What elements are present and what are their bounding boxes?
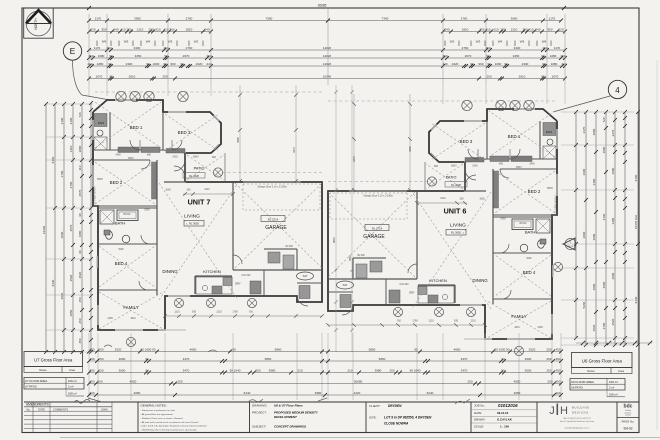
entry detail xyxy=(370,261,382,272)
svg-text:3000: 3000 xyxy=(525,357,532,361)
svg-text:2610: 2610 xyxy=(519,74,526,78)
svg-text:450: 450 xyxy=(89,379,94,383)
job column xyxy=(471,409,537,411)
svg-text:DATE:: DATE: xyxy=(474,411,482,415)
svg-text:4050: 4050 xyxy=(134,391,141,395)
svg-text:www.jhbuildingdesigns.com.au: www.jhbuildingdesigns.com.au xyxy=(565,428,589,430)
svg-text:Name: Name xyxy=(39,368,47,372)
door swing arcs xyxy=(510,149,520,159)
pen scribbles xyxy=(104,345,470,404)
svg-text:450: 450 xyxy=(78,338,82,343)
svg-text:WLT: WLT xyxy=(303,275,308,278)
svg-text:GENERAL NOTES:: GENERAL NOTES: xyxy=(141,403,167,407)
ens shower xyxy=(94,137,107,150)
WLT oval xyxy=(337,281,354,289)
svg-text:4050: 4050 xyxy=(514,391,521,395)
svg-text:3400: 3400 xyxy=(529,163,535,166)
svg-text:FAMILY: FAMILY xyxy=(511,314,526,319)
svg-text:4560: 4560 xyxy=(408,146,412,152)
svg-text:210: 210 xyxy=(87,62,92,66)
svg-text:150: 150 xyxy=(78,297,82,302)
svg-text:SH-02: SH-02 xyxy=(623,427,632,431)
svg-text:410: 410 xyxy=(120,27,125,31)
svg-text:RL 3650: RL 3650 xyxy=(451,231,462,235)
svg-text:1080: 1080 xyxy=(98,54,105,58)
robes / dark fixtures xyxy=(511,156,532,162)
svg-text:400: 400 xyxy=(89,391,94,395)
svg-text:1620: 1620 xyxy=(196,62,203,66)
svg-text:2100: 2100 xyxy=(69,117,73,124)
svg-text:90: 90 xyxy=(414,347,418,351)
svg-text:1410: 1410 xyxy=(69,145,73,152)
svg-text:1810: 1810 xyxy=(130,317,136,320)
svg-text:W3: W3 xyxy=(476,40,481,44)
svg-text:1810: 1810 xyxy=(462,27,469,31)
downpipe circles top xyxy=(524,100,534,110)
U6 area values table xyxy=(570,379,625,391)
bottom dimension row 5 xyxy=(89,394,561,396)
svg-text:W08: W08 xyxy=(527,257,533,260)
svg-text:7340: 7340 xyxy=(382,16,389,20)
svg-text:SUBJECT:: SUBJECT: xyxy=(252,425,267,429)
left dimension strip xyxy=(45,104,47,352)
svg-text:CLIENT:: CLIENT: xyxy=(369,404,381,408)
svg-text:U7 FLOOR AREA: U7 FLOOR AREA xyxy=(25,379,47,383)
svg-text:1620: 1620 xyxy=(452,62,459,66)
svg-text:GH-13: GH-13 xyxy=(567,246,574,248)
svg-text:950: 950 xyxy=(547,27,552,31)
svg-text:1170: 1170 xyxy=(95,16,102,20)
svg-text:860: 860 xyxy=(499,163,504,166)
bottom dimension row 1 xyxy=(89,351,326,353)
svg-text:4050: 4050 xyxy=(514,379,521,383)
living dim row xyxy=(183,193,233,195)
svg-text:106 m²: 106 m² xyxy=(68,379,77,383)
svg-text:108 m²: 108 m² xyxy=(68,392,77,396)
svg-text:BED 2: BED 2 xyxy=(528,189,541,194)
svg-text:1060: 1060 xyxy=(479,197,485,200)
svg-text:3080: 3080 xyxy=(592,128,596,135)
bottom extension lines xyxy=(88,333,90,400)
svg-text:LOT 9 in DP 862550, 4 DRYDEN: LOT 9 in DP 862550, 4 DRYDEN xyxy=(384,416,432,420)
svg-text:Area: Area xyxy=(618,369,624,373)
svg-text:2610: 2610 xyxy=(129,74,136,78)
svg-text:90: 90 xyxy=(542,62,546,66)
svg-text:W2: W2 xyxy=(194,40,199,44)
svg-text:U6 & U7 Floor Plans: U6 & U7 Floor Plans xyxy=(274,404,303,408)
svg-text:DRYDEN: DRYDEN xyxy=(388,404,402,408)
svg-text:250: 250 xyxy=(162,74,167,78)
svg-text:4: 4 xyxy=(615,86,620,95)
svg-text:PATIO: PATIO xyxy=(446,176,457,180)
svg-text:BATH: BATH xyxy=(525,230,535,235)
svg-text:BWH: BWH xyxy=(547,187,553,190)
downpipe circles top xyxy=(116,91,126,101)
svg-text:90 900: 90 900 xyxy=(357,254,365,257)
svg-text:2 m²: 2 m² xyxy=(68,385,73,389)
right dimension strip xyxy=(575,112,577,338)
svg-text:1210: 1210 xyxy=(137,27,144,31)
svg-text:2520: 2520 xyxy=(60,292,64,299)
svg-text:3400: 3400 xyxy=(115,154,121,157)
svg-text:4660: 4660 xyxy=(454,347,461,351)
svg-text:D E S I G N S: D E S I G N S xyxy=(572,411,588,415)
svg-text:90: 90 xyxy=(504,62,508,66)
svg-text:2420: 2420 xyxy=(144,209,150,212)
svg-text:110: 110 xyxy=(78,165,82,170)
svg-text:250: 250 xyxy=(522,27,527,31)
svg-text:5260: 5260 xyxy=(582,301,586,308)
svg-text:250: 250 xyxy=(177,379,182,383)
patio outline xyxy=(464,162,466,191)
svg-text:2700: 2700 xyxy=(60,170,64,177)
svg-text:U7 Gross Floor Area: U7 Gross Floor Area xyxy=(34,357,73,362)
svg-text:DRY: DRY xyxy=(235,282,241,286)
svg-text:DINING: DINING xyxy=(162,269,178,274)
svg-text:U6 Gross Floor Area: U6 Gross Floor Area xyxy=(582,358,623,363)
svg-text:2670: 2670 xyxy=(183,54,190,58)
garage door opening xyxy=(349,190,407,192)
svg-text:90 1640: 90 1640 xyxy=(410,368,421,372)
laundry fixtures xyxy=(250,281,261,294)
svg-text:7580: 7580 xyxy=(266,16,273,20)
svg-text:20680: 20680 xyxy=(354,379,363,383)
svg-text:BED 1: BED 1 xyxy=(508,134,521,139)
svg-text:90 1640: 90 1640 xyxy=(230,368,241,372)
svg-text:BWV: BWV xyxy=(193,156,199,159)
svg-text:2420: 2420 xyxy=(472,165,478,168)
svg-text:W08: W08 xyxy=(119,248,125,251)
svg-text:09.12.16: 09.12.16 xyxy=(497,411,509,415)
svg-text:1170: 1170 xyxy=(94,46,101,50)
svg-text:106 m²: 106 m² xyxy=(609,380,618,384)
svg-text:B1510: B1510 xyxy=(520,222,528,225)
svg-text:LIVING: LIVING xyxy=(184,214,200,220)
RL level boxes xyxy=(445,182,467,188)
svg-text:490: 490 xyxy=(555,357,560,361)
svg-text:DWN: DWN xyxy=(101,407,107,411)
svg-text:90: 90 xyxy=(501,357,505,361)
svg-text:UNIT 6: UNIT 6 xyxy=(444,207,467,216)
svg-text:250: 250 xyxy=(98,368,103,372)
svg-text:bdc: bdc xyxy=(624,404,633,410)
svg-text:3950: 3950 xyxy=(134,16,141,20)
svg-text:2670: 2670 xyxy=(96,74,103,78)
svg-text:610: 610 xyxy=(493,27,498,31)
svg-text:14020: 14020 xyxy=(323,54,332,58)
svg-text:2570: 2570 xyxy=(69,224,73,231)
svg-text:2520: 2520 xyxy=(78,271,82,278)
svg-text:W4: W4 xyxy=(498,40,503,44)
svg-text:BATH: BATH xyxy=(115,221,125,226)
svg-text:C10 920: C10 920 xyxy=(241,274,251,277)
svg-text:250: 250 xyxy=(442,54,447,58)
svg-text:B1510: B1510 xyxy=(124,213,132,216)
svg-text:E: E xyxy=(70,46,76,56)
svg-text:2090: 2090 xyxy=(582,231,586,238)
svg-text:610: 610 xyxy=(155,27,160,31)
patio outline xyxy=(184,153,186,182)
svg-text:3480: 3480 xyxy=(592,178,596,185)
svg-text:910: 910 xyxy=(249,311,254,314)
bottom dimension row 2 xyxy=(89,360,326,362)
svg-text:250: 250 xyxy=(88,54,93,58)
svg-text:250: 250 xyxy=(126,27,131,31)
bottom dimension row 4 xyxy=(89,383,326,385)
robes / dark fixtures xyxy=(118,147,139,153)
svg-text:Suite 10, Lyrebird Rd, Shoalha: Suite 10, Lyrebird Rd, Shoalhaven City C… xyxy=(560,420,595,423)
svg-text:8160: 8160 xyxy=(51,279,55,286)
svg-text:1780: 1780 xyxy=(232,311,238,314)
kitchen bench xyxy=(418,285,455,303)
svg-text:2090: 2090 xyxy=(592,233,596,240)
WLT oval xyxy=(297,272,314,280)
svg-text:1495: 1495 xyxy=(107,317,113,320)
svg-text:410: 410 xyxy=(528,27,533,31)
svg-text:BED 3: BED 3 xyxy=(460,139,473,144)
svg-text:90: 90 xyxy=(487,62,491,66)
svg-text:2 m²: 2 m² xyxy=(609,386,614,390)
svg-text:1210: 1210 xyxy=(174,311,180,314)
svg-text:860: 860 xyxy=(147,154,152,157)
svg-text:BWH: BWH xyxy=(97,178,103,181)
svg-text:3450: 3450 xyxy=(513,54,520,58)
svg-text:2100: 2100 xyxy=(60,117,64,124)
svg-text:210: 210 xyxy=(297,368,302,372)
svg-text:3000: 3000 xyxy=(119,357,126,361)
svg-text:DRAWING:: DRAWING: xyxy=(252,404,267,408)
garage door opening xyxy=(243,181,301,183)
svg-text:1810: 1810 xyxy=(514,326,520,329)
svg-text:designers: designers xyxy=(625,412,632,414)
svg-text:1080: 1080 xyxy=(551,62,558,66)
svg-text:250: 250 xyxy=(546,347,551,351)
downpipe circles bottom xyxy=(466,307,475,316)
svg-text:250: 250 xyxy=(98,347,103,351)
svg-text:2520: 2520 xyxy=(115,347,122,351)
scan artifact bottom line xyxy=(60,437,660,439)
unit 7 plan geometry xyxy=(93,85,324,347)
svg-text:2420: 2420 xyxy=(172,156,178,159)
svg-text:ENS: ENS xyxy=(546,130,552,134)
svg-text:490: 490 xyxy=(555,368,560,372)
svg-text:3050: 3050 xyxy=(69,309,73,316)
svg-text:90: 90 xyxy=(163,62,167,66)
svg-text:410: 410 xyxy=(485,27,490,31)
svg-text:2410: 2410 xyxy=(440,197,446,200)
svg-text:360: 360 xyxy=(169,27,174,31)
svg-text:2090: 2090 xyxy=(611,272,615,279)
svg-text:KITCHEN: KITCHEN xyxy=(429,278,447,283)
svg-text:- All ground floor are approxi: - All ground floor are approximate xyxy=(141,413,174,416)
svg-text:UNIT 7: UNIT 7 xyxy=(188,198,211,207)
svg-text:3980: 3980 xyxy=(269,368,276,372)
svg-text:540: 540 xyxy=(113,27,118,31)
dining wall window xyxy=(168,295,190,297)
svg-text:520: 520 xyxy=(90,27,95,31)
top dimension row 2 xyxy=(89,31,211,33)
svg-text:2410: 2410 xyxy=(204,188,210,191)
svg-text:30685: 30685 xyxy=(318,4,327,8)
svg-text:960: 960 xyxy=(170,62,175,66)
top dimension row 1 xyxy=(89,20,328,22)
svg-text:90 1000 90: 90 1000 90 xyxy=(494,347,509,351)
svg-text:BED 4: BED 4 xyxy=(523,270,536,275)
svg-text:01012016: 01012016 xyxy=(498,403,518,408)
svg-text:LIVING: LIVING xyxy=(450,223,466,229)
vertical interior dims xyxy=(239,85,241,181)
svg-text:3000: 3000 xyxy=(60,231,64,238)
svg-text:90: 90 xyxy=(109,74,113,78)
svg-text:GARAGE: GARAGE xyxy=(363,234,385,240)
svg-text:240: 240 xyxy=(442,62,447,66)
section marker GH-13 xyxy=(563,238,575,250)
svg-text:450: 450 xyxy=(89,347,94,351)
svg-text:3450: 3450 xyxy=(135,54,142,58)
vertical interior dims xyxy=(409,94,411,190)
svg-text:5860: 5860 xyxy=(275,347,282,351)
svg-text:90: 90 xyxy=(146,62,150,66)
dining wall window xyxy=(460,304,482,306)
svg-text:90: 90 xyxy=(486,54,490,58)
svg-text:230: 230 xyxy=(148,27,153,31)
svg-text:3080: 3080 xyxy=(602,146,606,153)
svg-text:W2: W2 xyxy=(450,40,455,44)
top extension lines xyxy=(88,14,90,84)
dashed eave line + circle at patio right xyxy=(222,172,322,174)
svg-text:360: 360 xyxy=(479,27,484,31)
svg-text:GARAGE: GARAGE xyxy=(265,225,287,231)
svg-text:5810: 5810 xyxy=(348,255,352,261)
svg-text:No.: No. xyxy=(26,407,30,411)
svg-text:PATIO: PATIO xyxy=(194,167,205,171)
top dimension row 6 xyxy=(89,65,328,67)
svg-text:2760: 2760 xyxy=(186,16,193,20)
svg-text:3000: 3000 xyxy=(592,283,596,290)
svg-text:H: H xyxy=(560,405,568,417)
svg-text:3470: 3470 xyxy=(183,368,190,372)
svg-text:2500: 2500 xyxy=(602,281,606,288)
svg-text:3080: 3080 xyxy=(611,167,615,174)
svg-text:1000: 1000 xyxy=(495,62,502,66)
svg-text:250: 250 xyxy=(485,46,490,50)
svg-text:5850: 5850 xyxy=(379,357,386,361)
svg-text:6240: 6240 xyxy=(244,391,251,395)
svg-text:200: 200 xyxy=(547,379,552,383)
svg-text:3690: 3690 xyxy=(582,168,586,175)
svg-text:- Dimensions in preference to: - Dimensions in preference to scale xyxy=(141,409,176,412)
svg-text:210: 210 xyxy=(561,62,566,66)
svg-text:U6 PATIO: U6 PATIO xyxy=(571,386,583,390)
svg-text:2670: 2670 xyxy=(552,74,559,78)
svg-text:8160: 8160 xyxy=(634,174,638,181)
svg-text:950: 950 xyxy=(101,27,106,31)
right strip extension stubs xyxy=(561,111,634,113)
svg-text:RL 3650: RL 3650 xyxy=(189,222,200,226)
svg-text:250: 250 xyxy=(546,368,551,372)
unit 6 plan geometry (mirrored) xyxy=(326,94,557,356)
svg-text:90: 90 xyxy=(232,347,236,351)
svg-text:2760: 2760 xyxy=(462,46,469,50)
svg-text:BED 1: BED 1 xyxy=(130,125,143,130)
svg-text:200: 200 xyxy=(97,379,102,383)
top dimension row 5 xyxy=(89,57,328,59)
svg-text:RL 3628: RL 3628 xyxy=(451,183,461,187)
downpipe circle below family xyxy=(126,337,135,346)
svg-text:1210: 1210 xyxy=(216,311,222,314)
svg-text:BED 2: BED 2 xyxy=(110,180,123,185)
ens shower xyxy=(543,146,556,159)
svg-text:250: 250 xyxy=(546,357,551,361)
svg-text:1780: 1780 xyxy=(412,320,418,323)
U6 gross floor area table xyxy=(572,353,633,368)
svg-text:Codes, the B.C.A., Australian: Codes, the B.C.A., Australian Standards … xyxy=(141,425,208,428)
svg-text:2520: 2520 xyxy=(69,274,73,281)
svg-text:490: 490 xyxy=(89,368,94,372)
svg-text:250: 250 xyxy=(106,46,111,50)
svg-text:860: 860 xyxy=(212,156,217,159)
grid bubble 4 xyxy=(608,80,626,98)
svg-text:450: 450 xyxy=(555,379,560,383)
svg-text:SCALE:: SCALE: xyxy=(474,425,484,429)
svg-text:1810: 1810 xyxy=(186,27,193,31)
downpipe circle right edge xyxy=(553,262,562,271)
leader wire from E xyxy=(73,60,111,100)
svg-text:3400: 3400 xyxy=(514,46,521,50)
interior dim row under dining xyxy=(328,324,485,326)
svg-text:3470: 3470 xyxy=(183,357,190,361)
svg-text:4050: 4050 xyxy=(130,379,137,383)
interior walls xyxy=(487,158,557,160)
svg-text:1000: 1000 xyxy=(153,62,160,66)
svg-text:DRY: DRY xyxy=(409,291,415,295)
svg-text:90 900: 90 900 xyxy=(285,245,293,248)
svg-text:3470: 3470 xyxy=(352,156,356,162)
svg-text:90: 90 xyxy=(470,62,474,66)
svg-text:W5: W5 xyxy=(124,40,129,44)
svg-text:4560: 4560 xyxy=(236,137,240,143)
svg-text:910: 910 xyxy=(397,320,402,323)
door swing arcs xyxy=(130,140,140,150)
entry detail xyxy=(268,252,280,263)
RL level boxes xyxy=(183,173,205,179)
interior walls xyxy=(93,149,163,151)
svg-text:DEVELOPMENT: DEVELOPMENT xyxy=(274,415,298,419)
svg-text:Garage Door 2.1h x 3.230w: Garage Door 2.1h x 3.230w xyxy=(257,186,287,189)
svg-text:2700: 2700 xyxy=(69,181,73,188)
windows xyxy=(514,108,535,110)
svg-text:PROJECT:: PROJECT: xyxy=(252,411,267,415)
svg-text:1080: 1080 xyxy=(550,54,557,58)
svg-text:1210: 1210 xyxy=(428,320,434,323)
svg-text:2670: 2670 xyxy=(465,54,472,58)
svg-text:W3: W3 xyxy=(168,40,173,44)
svg-text:PROPOSED MEDIUM DENSITY: PROPOSED MEDIUM DENSITY xyxy=(274,411,319,415)
svg-text:90: 90 xyxy=(109,54,113,58)
bath fixtures xyxy=(100,210,114,224)
left strip extension stubs xyxy=(46,103,93,105)
svg-text:1495: 1495 xyxy=(537,326,543,329)
room cross dashes xyxy=(95,102,161,148)
svg-text:2760: 2760 xyxy=(461,16,468,20)
grid bubble E xyxy=(63,42,81,60)
svg-text:DATE: DATE xyxy=(38,407,45,411)
svg-text:90: 90 xyxy=(145,357,149,361)
svg-text:CONCEPT DRAWINGS: CONCEPT DRAWINGS xyxy=(274,425,306,429)
svg-text:building: building xyxy=(625,410,631,412)
svg-text:BWV: BWV xyxy=(451,165,457,168)
svg-text:540: 540 xyxy=(444,27,449,31)
